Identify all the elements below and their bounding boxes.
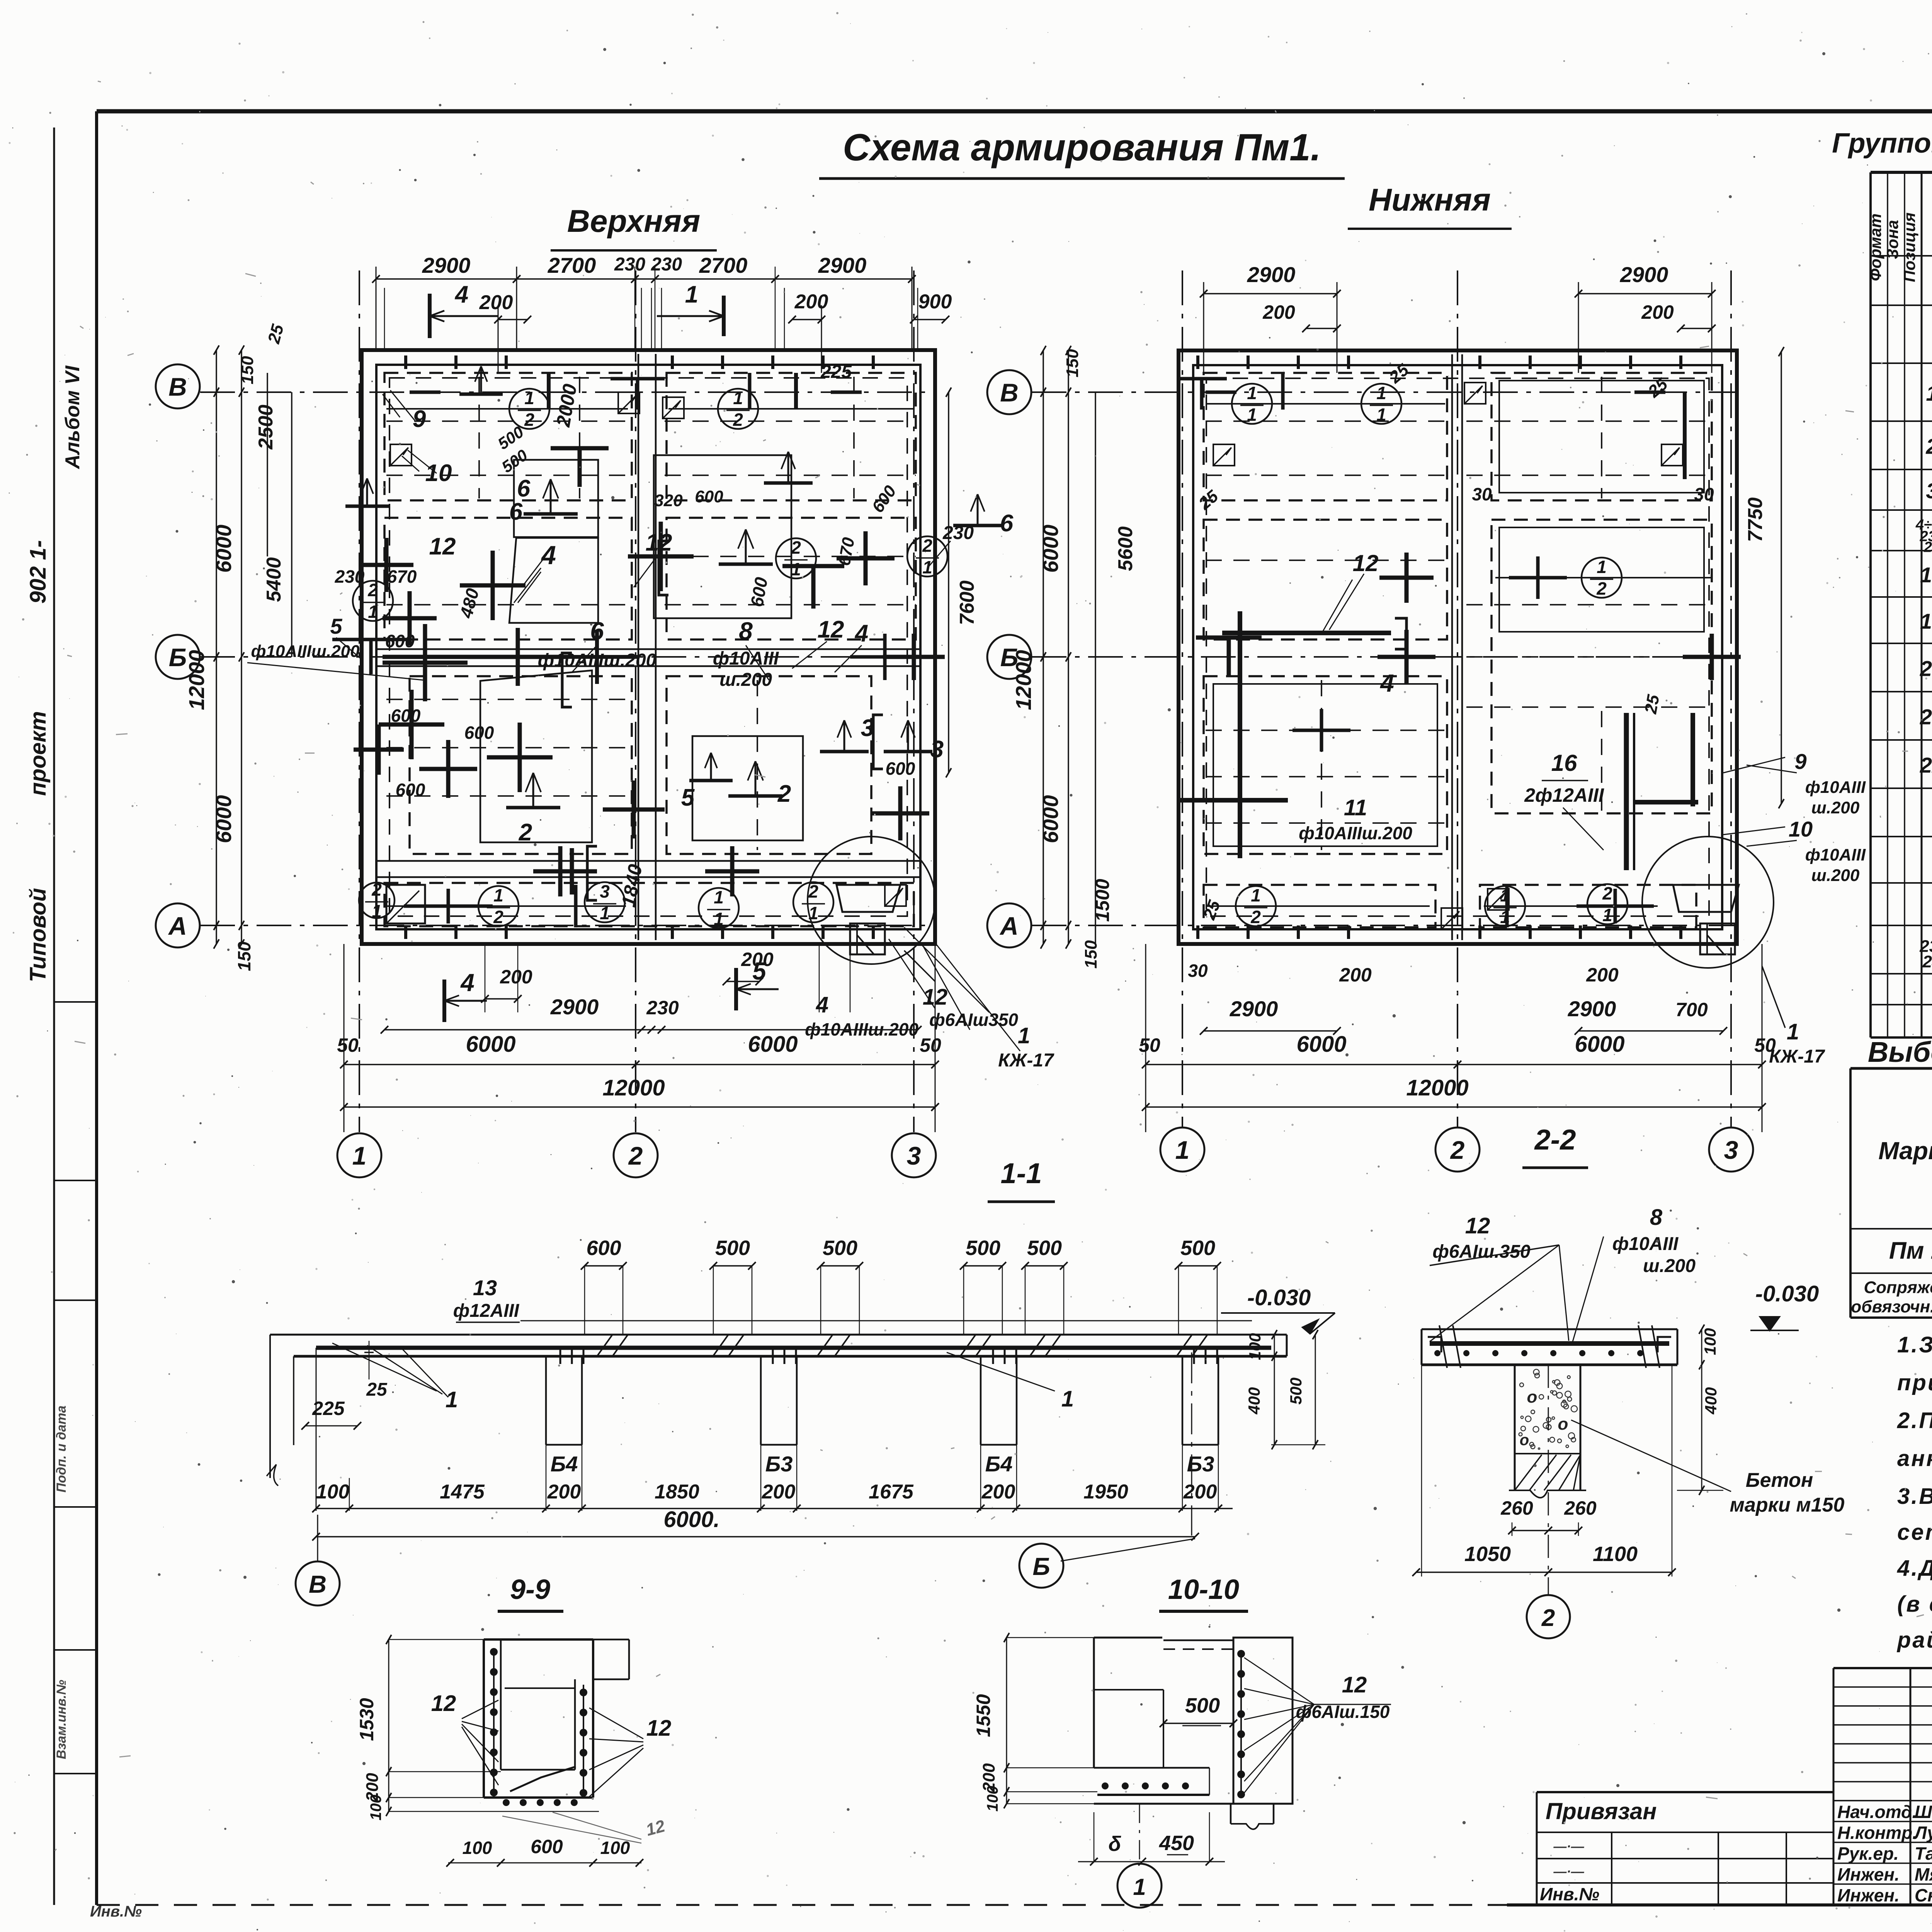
svg-text:50: 50 (920, 1034, 941, 1056)
svg-text:200: 200 (762, 1481, 796, 1503)
svg-text:2-2: 2-2 (1534, 1124, 1576, 1156)
svg-text:Лучковский: Лучковский (1913, 1823, 1932, 1843)
svg-text:Б: Б (1032, 1553, 1050, 1580)
svg-text:260: 260 (1564, 1497, 1597, 1519)
svg-text:150: 150 (1063, 349, 1082, 378)
svg-text:900: 900 (918, 291, 952, 313)
svg-text:Подп. и дата: Подп. и дата (54, 1405, 69, 1492)
svg-text:600: 600 (531, 1836, 563, 1857)
svg-text:Взам.инв.№: Взам.инв.№ (54, 1680, 69, 1759)
svg-text:о: о (1520, 1432, 1529, 1449)
svg-text:Альбом VI: Альбом VI (61, 365, 84, 469)
svg-text:22: 22 (1920, 753, 1932, 777)
svg-text:ф10АIIIш.200: ф10АIIIш.200 (805, 1019, 918, 1039)
svg-text:1: 1 (1926, 381, 1932, 405)
svg-text:2: 2 (1250, 907, 1261, 927)
svg-text:3: 3 (1926, 479, 1932, 503)
svg-text:Б3: Б3 (1187, 1452, 1214, 1476)
svg-text:2: 2 (733, 410, 743, 430)
svg-text:2: 2 (628, 1141, 643, 1170)
svg-text:1530: 1530 (356, 1698, 378, 1741)
svg-text:6000: 6000 (211, 795, 236, 844)
svg-text:2700: 2700 (699, 253, 748, 277)
svg-text:Нач.отд.: Нач.отд. (1837, 1802, 1917, 1822)
svg-text:2500: 2500 (255, 405, 277, 450)
svg-text:районам с расчетной зимней: районам с расчетной зимней температурой … (1896, 1628, 1932, 1653)
svg-text:6000: 6000 (1038, 525, 1063, 573)
svg-text:2: 2 (371, 879, 382, 900)
svg-text:260: 260 (1500, 1497, 1533, 1519)
svg-text:700: 700 (1675, 999, 1708, 1020)
svg-text:50: 50 (1139, 1034, 1160, 1056)
svg-text:225: 225 (820, 362, 852, 382)
svg-text:анкера отогнуть в плиту по: анкера отогнуть в плиту по месту. (1897, 1446, 1932, 1471)
svg-text:3: 3 (1724, 1136, 1738, 1164)
svg-text:проект: проект (26, 711, 51, 796)
svg-text:9: 9 (1794, 749, 1806, 774)
svg-text:25: 25 (1641, 693, 1663, 716)
svg-text:12: 12 (429, 533, 456, 560)
svg-text:Инв.№: Инв.№ (90, 1903, 142, 1920)
svg-text:5400: 5400 (263, 557, 285, 602)
svg-text:4: 4 (854, 620, 868, 647)
svg-text:Марка: Марка (1878, 1137, 1932, 1165)
svg-text:400: 400 (1245, 1387, 1263, 1415)
svg-text:500: 500 (1027, 1236, 1062, 1260)
svg-text:200: 200 (1339, 964, 1372, 986)
svg-text:2: 2 (524, 410, 534, 430)
svg-text:Верхняя: Верхняя (567, 204, 701, 239)
svg-text:1850: 1850 (655, 1481, 699, 1503)
svg-text:Пм 1: Пм 1 (1889, 1238, 1932, 1264)
svg-text:902 1-: 902 1- (26, 540, 51, 604)
svg-text:320: 320 (654, 491, 683, 510)
svg-text:230: 230 (614, 254, 645, 275)
svg-text:100: 100 (1246, 1333, 1264, 1360)
svg-text:4: 4 (454, 281, 468, 308)
svg-text:—·—: —·— (1553, 1839, 1584, 1854)
svg-text:12: 12 (646, 529, 672, 556)
svg-text:1: 1 (685, 281, 698, 308)
svg-text:12: 12 (1342, 1672, 1367, 1697)
svg-text:КЖ-17: КЖ-17 (998, 1050, 1054, 1071)
svg-text:1: 1 (714, 887, 724, 907)
svg-text:Позиция: Позиция (1900, 213, 1918, 282)
svg-text:8: 8 (739, 617, 753, 645)
svg-text:100: 100 (984, 1786, 1001, 1812)
svg-text:500: 500 (1180, 1236, 1215, 1260)
svg-text:7750: 7750 (1744, 497, 1767, 542)
svg-text:6000.: 6000. (663, 1507, 719, 1532)
svg-text:6: 6 (509, 498, 523, 525)
svg-text:—·—: —·— (1553, 1864, 1584, 1879)
svg-text:670: 670 (387, 566, 417, 587)
svg-text:2900: 2900 (1230, 997, 1278, 1021)
svg-text:2: 2 (791, 537, 801, 558)
svg-text:4.Данные для детали сопряже: 4.Данные для детали сопряжения обвязочны… (1897, 1556, 1932, 1581)
svg-text:11: 11 (1344, 795, 1367, 820)
svg-text:Шейко: Шейко (1915, 1802, 1932, 1822)
svg-text:1: 1 (1251, 885, 1261, 905)
svg-text:12000: 12000 (1406, 1075, 1468, 1100)
svg-text:2900: 2900 (422, 253, 471, 277)
svg-text:1-1: 1-1 (1001, 1157, 1042, 1189)
svg-text:ш.200: ш.200 (1811, 866, 1860, 885)
svg-text:2: 2 (1541, 1605, 1555, 1631)
svg-text:200: 200 (794, 291, 828, 313)
svg-text:Инжен.: Инжен. (1837, 1864, 1900, 1884)
svg-text:500: 500 (715, 1236, 750, 1260)
svg-text:600: 600 (586, 1236, 621, 1260)
svg-text:1050: 1050 (1464, 1543, 1511, 1566)
svg-text:2: 2 (922, 536, 932, 556)
svg-text:2900: 2900 (1568, 997, 1616, 1021)
svg-text:2700: 2700 (548, 253, 596, 277)
svg-text:600: 600 (396, 780, 425, 800)
svg-text:400: 400 (1702, 1387, 1720, 1415)
svg-text:13: 13 (473, 1276, 497, 1300)
svg-text:12: 12 (1465, 1213, 1490, 1238)
svg-text:обвязочн.балок: обвязочн.балок (1851, 1298, 1932, 1316)
svg-text:600: 600 (464, 723, 494, 743)
svg-text:1: 1 (808, 903, 818, 923)
svg-text:24: 24 (1922, 952, 1932, 971)
svg-text:2ф12АIII: 2ф12АIII (1524, 784, 1604, 806)
svg-text:2: 2 (1596, 578, 1607, 599)
svg-text:6000: 6000 (748, 1032, 798, 1057)
svg-text:1: 1 (1133, 1874, 1146, 1900)
svg-text:2900: 2900 (550, 995, 599, 1019)
svg-text:10-10: 10-10 (1168, 1574, 1239, 1605)
svg-text:о: о (1558, 1415, 1568, 1434)
svg-text:2900: 2900 (1620, 262, 1668, 287)
svg-text:Инв.№: Инв.№ (1540, 1884, 1599, 1904)
svg-text:12000: 12000 (602, 1075, 665, 1100)
svg-text:Типовой: Типовой (26, 888, 51, 982)
svg-text:6: 6 (517, 475, 531, 502)
svg-text:ф12АIII: ф12АIII (453, 1301, 520, 1321)
svg-text:2: 2 (1925, 434, 1932, 459)
svg-text:Н.контр.: Н.контр. (1837, 1823, 1917, 1843)
svg-text:(в спецификациях), заключенные: (в спецификациях), заключенные в скобках… (1897, 1592, 1932, 1617)
svg-text:В: В (1000, 378, 1019, 407)
svg-text:10: 10 (1789, 817, 1813, 841)
svg-text:1550: 1550 (973, 1694, 994, 1737)
svg-text:1: 1 (1376, 383, 1386, 403)
svg-text:16: 16 (1551, 750, 1577, 776)
svg-text:1: 1 (524, 388, 534, 408)
svg-text:200: 200 (500, 966, 532, 988)
svg-text:225: 225 (312, 1398, 345, 1419)
svg-text:2: 2 (493, 907, 503, 927)
svg-text:1: 1 (352, 1141, 367, 1170)
svg-text:Зона: Зона (1883, 220, 1901, 259)
svg-text:1100: 1100 (1593, 1543, 1638, 1566)
svg-text:100: 100 (463, 1838, 492, 1858)
svg-text:Выборка стали на один элем: Выборка стали на один элемент, кг (1868, 1036, 1932, 1068)
svg-text:450: 450 (1159, 1832, 1194, 1855)
svg-text:500: 500 (1185, 1694, 1220, 1717)
svg-text:6000: 6000 (211, 525, 236, 573)
svg-text:ш.200: ш.200 (1643, 1256, 1696, 1276)
svg-text:1: 1 (1175, 1136, 1190, 1164)
svg-text:1475: 1475 (440, 1481, 485, 1503)
svg-text:ф10АIII: ф10АIII (1805, 845, 1866, 864)
svg-text:100: 100 (600, 1838, 630, 1858)
svg-text:-0.030: -0.030 (1755, 1281, 1819, 1306)
svg-text:Групповая спецификация монол: Групповая спецификация монолитных констр… (1832, 128, 1932, 159)
svg-text:ф10АIII: ф10АIII (1612, 1234, 1679, 1254)
svg-text:200: 200 (1183, 1481, 1217, 1503)
svg-text:9: 9 (413, 406, 426, 432)
svg-text:Б3: Б3 (765, 1452, 793, 1476)
svg-text:Формат: Формат (1866, 213, 1884, 281)
svg-text:6000: 6000 (1296, 1032, 1346, 1057)
svg-text:100: 100 (1701, 1328, 1719, 1355)
svg-text:ш.200: ш.200 (1811, 798, 1860, 817)
svg-text:1: 1 (372, 901, 382, 921)
svg-text:марки м150: марки м150 (1730, 1494, 1845, 1516)
svg-text:о: о (1527, 1388, 1537, 1406)
svg-text:12: 12 (431, 1691, 456, 1716)
svg-text:3.В местах расположения отв: 3.В местах расположения отверстий армату… (1897, 1484, 1932, 1509)
svg-text:1950: 1950 (1083, 1481, 1128, 1503)
svg-text:6: 6 (1000, 510, 1014, 537)
svg-text:10: 10 (425, 460, 452, 486)
svg-text:500: 500 (966, 1236, 1000, 1260)
svg-text:А: А (168, 912, 187, 940)
svg-text:Б4: Б4 (551, 1452, 578, 1476)
svg-text:1: 1 (493, 885, 503, 905)
svg-text:ф6АIш350: ф6АIш350 (929, 1010, 1018, 1030)
svg-text:-0.030: -0.030 (1247, 1285, 1311, 1310)
svg-text:Мягкая: Мягкая (1915, 1864, 1932, 1884)
svg-text:2900: 2900 (1247, 262, 1296, 287)
svg-text:200: 200 (1586, 964, 1619, 986)
svg-text:12000: 12000 (184, 650, 209, 710)
svg-text:150: 150 (1082, 940, 1100, 969)
svg-text:1: 1 (368, 602, 378, 622)
svg-text:200: 200 (547, 1481, 581, 1503)
svg-text:600: 600 (391, 706, 421, 726)
svg-text:21: 21 (1920, 705, 1932, 729)
svg-text:230: 230 (335, 566, 365, 587)
svg-text:Б4: Б4 (985, 1452, 1013, 1476)
svg-text:Сопряжение: Сопряжение (1864, 1278, 1932, 1297)
svg-text:3: 3 (861, 715, 874, 742)
svg-text:Нижняя: Нижняя (1369, 182, 1491, 218)
svg-text:1.Защитный слой бетона дл: 1.Защитный слой бетона для рабочей армат… (1897, 1332, 1932, 1357)
svg-text:5600: 5600 (1114, 526, 1137, 571)
svg-text:Тахтамышева: Тахтамышева (1915, 1844, 1932, 1864)
svg-text:12000: 12000 (1011, 650, 1036, 710)
svg-text:50: 50 (337, 1034, 359, 1056)
svg-text:Бетон: Бетон (1746, 1469, 1813, 1492)
svg-text:3: 3 (930, 736, 944, 763)
svg-text:30: 30 (1188, 961, 1208, 981)
svg-text:1500: 1500 (1092, 879, 1113, 922)
svg-text:24: 24 (1923, 539, 1932, 556)
svg-text:150: 150 (234, 941, 254, 971)
svg-text:12: 12 (1353, 550, 1379, 576)
svg-text:3: 3 (907, 1141, 921, 1170)
svg-text:ф10АIII: ф10АIII (1805, 778, 1866, 797)
svg-text:200: 200 (1262, 301, 1295, 323)
svg-text:1: 1 (1602, 905, 1612, 925)
svg-text:2900: 2900 (818, 253, 867, 277)
svg-text:30: 30 (1694, 484, 1714, 504)
svg-text:Рук.ер.: Рук.ер. (1837, 1844, 1899, 1864)
svg-text:4: 4 (816, 992, 828, 1017)
svg-text:5: 5 (330, 614, 342, 638)
svg-text:12: 12 (818, 616, 844, 643)
svg-text:18: 18 (1920, 563, 1932, 587)
svg-text:А: А (999, 912, 1019, 940)
svg-text:600: 600 (695, 487, 723, 506)
svg-text:1: 1 (1597, 557, 1607, 577)
svg-text:6000: 6000 (1038, 795, 1063, 844)
svg-text:В: В (168, 372, 187, 401)
svg-text:6000: 6000 (1575, 1032, 1624, 1057)
svg-text:В: В (309, 1570, 327, 1598)
svg-text:ф10АIII: ф10АIII (713, 648, 779, 669)
svg-text:Схема армирования Пм1.: Схема армирования Пм1. (843, 126, 1321, 168)
svg-text:200: 200 (981, 1481, 1015, 1503)
svg-text:200: 200 (1641, 301, 1674, 323)
svg-text:КЖ-17: КЖ-17 (1769, 1046, 1825, 1067)
svg-text:1: 1 (791, 559, 801, 579)
svg-text:6000: 6000 (466, 1032, 515, 1057)
svg-text:2: 2 (1602, 883, 1612, 903)
svg-text:19: 19 (1920, 609, 1932, 633)
svg-text:5: 5 (752, 957, 767, 985)
svg-text:100: 100 (367, 1795, 384, 1821)
svg-text:200: 200 (479, 291, 513, 314)
svg-text:сеток вырезать по месту.: сеток вырезать по месту. (1897, 1520, 1932, 1545)
svg-text:1: 1 (1061, 1386, 1074, 1412)
svg-text:1: 1 (1247, 383, 1257, 403)
svg-text:2: 2 (367, 580, 378, 600)
svg-text:ф10АIIIш.200: ф10АIIIш.200 (1299, 823, 1412, 843)
svg-text:1: 1 (1787, 1019, 1799, 1044)
svg-text:25: 25 (366, 1379, 388, 1400)
svg-text:1: 1 (733, 388, 743, 408)
svg-text:δ: δ (1109, 1832, 1122, 1855)
svg-text:7600: 7600 (956, 580, 978, 625)
svg-text:4: 4 (1379, 669, 1394, 697)
svg-text:12: 12 (646, 1716, 672, 1741)
svg-text:4: 4 (460, 969, 474, 997)
svg-text:1675: 1675 (869, 1481, 914, 1503)
svg-text:1: 1 (446, 1387, 458, 1412)
svg-text:30: 30 (1472, 484, 1492, 504)
svg-text:Привязан: Привязан (1546, 1798, 1656, 1824)
svg-text:3: 3 (600, 881, 610, 901)
svg-text:9-9: 9-9 (510, 1574, 550, 1605)
svg-text:Инжен.: Инжен. (1837, 1885, 1900, 1905)
svg-text:600: 600 (886, 759, 915, 779)
svg-text:2.При установке закладных М: 2.При установке закладных МИ4-37 в опалу… (1897, 1408, 1932, 1433)
svg-text:4: 4 (541, 541, 556, 570)
svg-text:100: 100 (316, 1481, 350, 1503)
svg-text:ф10АIIIш.200: ф10АIIIш.200 (251, 642, 360, 661)
svg-text:Сюганова: Сюганова (1915, 1885, 1932, 1905)
svg-text:150: 150 (238, 356, 257, 384)
svg-text:230: 230 (646, 997, 679, 1019)
svg-text:2: 2 (1450, 1136, 1465, 1164)
svg-text:2: 2 (777, 781, 791, 807)
svg-text:8: 8 (1650, 1205, 1663, 1230)
svg-text:500: 500 (823, 1236, 857, 1260)
svg-text:20: 20 (1920, 656, 1932, 681)
svg-text:1: 1 (1018, 1023, 1030, 1048)
svg-text:500: 500 (1287, 1378, 1305, 1405)
